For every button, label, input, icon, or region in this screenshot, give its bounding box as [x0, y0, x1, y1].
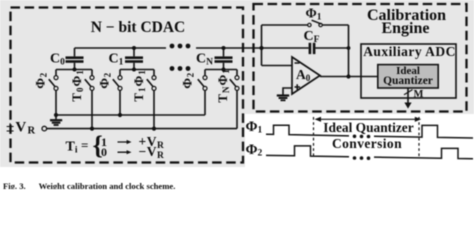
terminal +-VR: [42, 126, 47, 131]
switch phi1 feedback: [308, 20, 323, 26]
M output arrow: [404, 88, 424, 109]
switch T0 cell0: [85, 70, 94, 129]
wire feedback left vertical: [261, 25, 263, 66]
waveform phi1: [266, 125, 349, 136]
wire feedback top branch: [262, 24, 349, 26]
wire op-amp output: [320, 76, 378, 78]
svg-text:Conversion: Conversion: [332, 136, 402, 151]
switch phi2 cell0: [49, 70, 58, 116]
op-amp A0: [292, 57, 320, 94]
wire split line C1: [120, 69, 154, 71]
svg-text:Quantizer: Quantizer: [383, 75, 433, 87]
Ideal Quantizer box: [378, 65, 438, 88]
capacitor CF: [304, 29, 320, 54]
wire feedback right vertical: [348, 25, 350, 77]
switch TN cellN: [230, 70, 239, 129]
svg-text:N − bit CDAC: N − bit CDAC: [91, 19, 186, 36]
svg-text:Engine: Engine: [381, 20, 429, 37]
svg-text:Fig. 3. Weight calibratio: Fig. 3. Weight calibration and clock sch…: [3, 181, 175, 189]
node dots top rail: [132, 46, 350, 50]
Auxiliary ADC box: [361, 44, 456, 98]
dashed marker left: [313, 117, 315, 159]
svg-text:Ideal Quantizer: Ideal Quantizer: [323, 120, 413, 135]
dots phi1: [353, 135, 371, 139]
Calibration Engine dashed box: [254, 4, 467, 112]
wire split line C0: [56, 69, 92, 71]
svg-text:=: =: [81, 137, 88, 152]
Ti formula: [66, 131, 164, 161]
svg-text:Auxiliary ADC: Auxiliary ADC: [363, 44, 456, 59]
capacitor C0: [50, 48, 84, 70]
wire ground rail: [56, 114, 205, 116]
wire op-amp plus input: [283, 88, 292, 95]
ground symbol CDAC: [50, 115, 62, 125]
dots ellipsis switch row: [170, 66, 191, 71]
arrow span: [315, 117, 422, 122]
node dots split: [73, 68, 226, 72]
switch phi2 cell1: [113, 70, 122, 116]
wire op-amp input: [262, 65, 293, 67]
dots ellipsis top rail: [170, 44, 191, 49]
dots phi2: [353, 156, 371, 160]
dashed marker right: [418, 117, 420, 159]
ground op-amp: [277, 96, 289, 101]
waveform phi2: [266, 146, 349, 157]
wire VR rail: [47, 128, 237, 130]
svg-text:M: M: [414, 89, 424, 100]
wire split line CN: [205, 69, 237, 71]
wire top rail: [75, 47, 349, 49]
capacitor C1: [109, 48, 144, 70]
switch phi2 cellN: [198, 70, 207, 116]
capacitor CN: [196, 48, 233, 70]
switch T1 cell1: [147, 70, 156, 129]
CDAC dashed box: [11, 8, 244, 163]
